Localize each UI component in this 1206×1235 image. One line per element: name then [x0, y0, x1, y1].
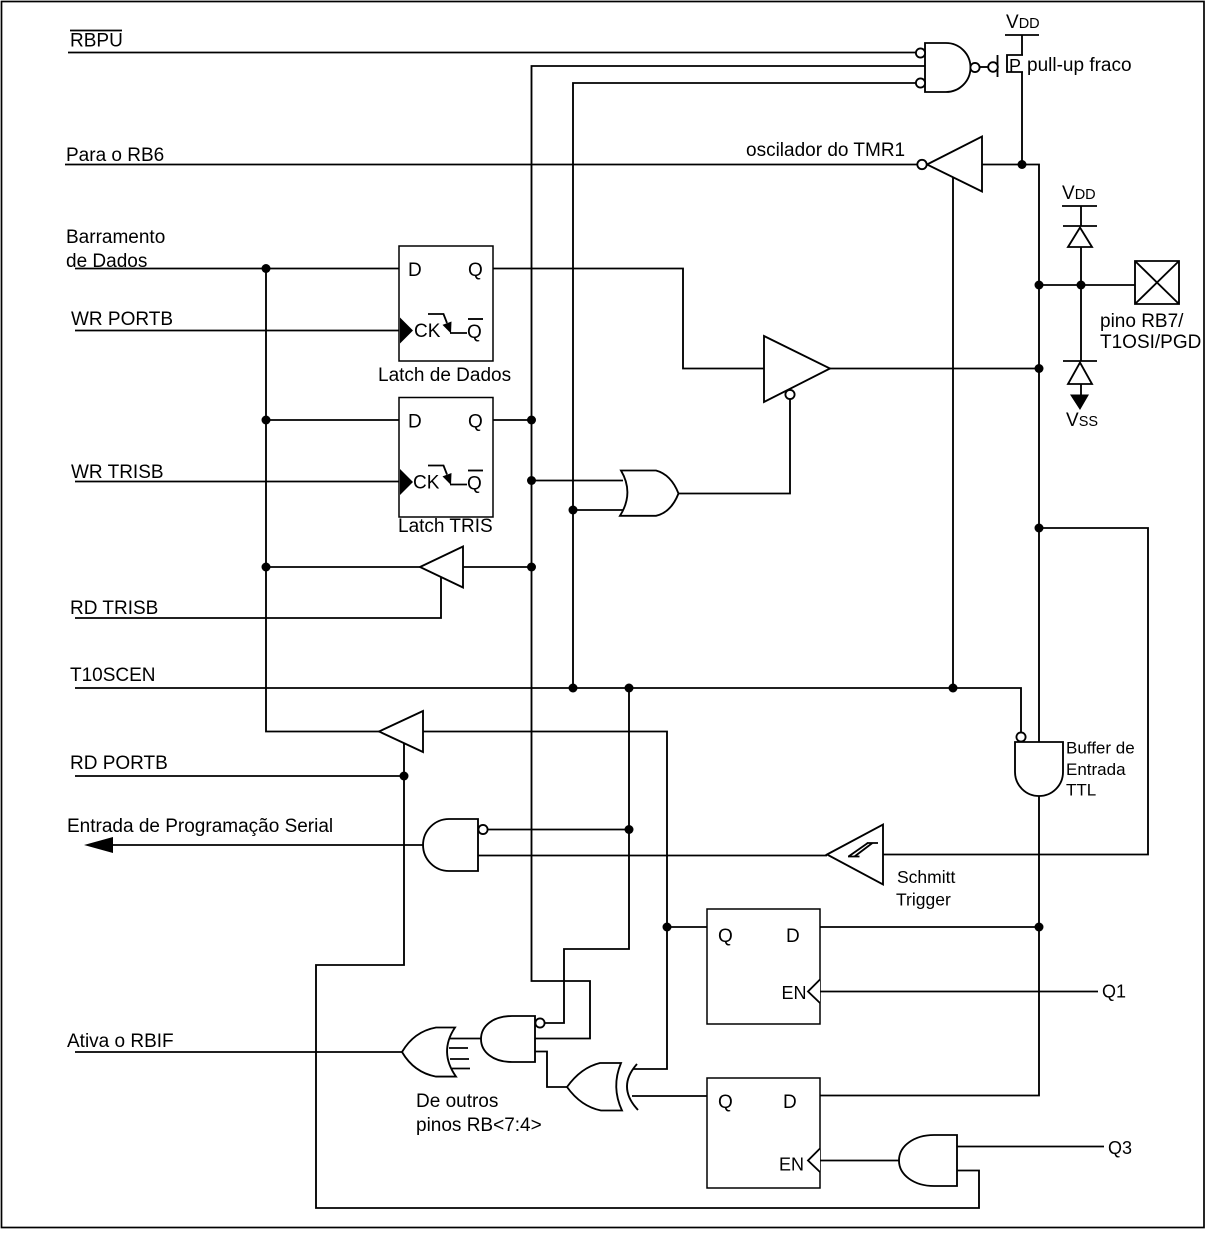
- svg-text:Latch TRIS: Latch TRIS: [398, 516, 493, 537]
- diode D2 clamp to VSS: [1063, 361, 1097, 384]
- wire T10SCEN line to TTL buffer input bubble: [75, 688, 1021, 733]
- svg-text:EN: EN: [782, 983, 807, 1003]
- svg-text:Entrada: Entrada: [1066, 760, 1126, 779]
- net RBPU: signal line: [68, 52, 916, 54]
- wire RD TRISB buffer output to data bus: [266, 566, 420, 568]
- svg-text:Q: Q: [467, 322, 482, 343]
- gate U8 buffer RD PORTB: [379, 711, 423, 752]
- wire T1OSCEN branch to OR gate lower input: [573, 509, 624, 511]
- svg-text:oscilador do TMR1: oscilador do TMR1: [746, 140, 905, 161]
- wire RD TRISB enable line: [75, 577, 441, 618]
- wire Entrada NAND inverted input from T10SCEN net: [488, 829, 630, 831]
- gate U7 buffer RD TRISB: [420, 547, 463, 588]
- wire upper clamp diode to pin line junction: [1080, 247, 1082, 285]
- wire TTL buffer output to latch D inputs: [820, 796, 1039, 1096]
- wire Ativa o RBIF output line: [75, 1051, 402, 1053]
- svg-text:CK: CK: [414, 321, 441, 342]
- gate U5 OR (tri-state enable): [620, 471, 679, 516]
- diode D1 clamp to VDD: [1063, 226, 1097, 247]
- svg-text:Q: Q: [468, 260, 483, 281]
- svg-text:VDD: VDD: [1062, 183, 1096, 204]
- gate U2 inverter (oscilador do TMR1): [917, 137, 982, 192]
- wire P-MOSFET source to VDD rail: [1021, 35, 1023, 55]
- wire RD TRISB buffer input from TRIS net: [463, 566, 532, 568]
- svg-text:RBPU: RBPU: [70, 31, 123, 52]
- power VDD rail 2 (clamp): [1062, 205, 1097, 207]
- ground VSS arrow: [1070, 395, 1089, 411]
- pin pad RB7/T1OSI/PGD: [1135, 261, 1179, 304]
- svg-text:D: D: [408, 412, 422, 433]
- gate U17 AND (Q3 and RD PORTB): [899, 1135, 957, 1186]
- net RBPU: overline bar: [70, 30, 122, 32]
- net T1OSCEN vertical x=573: top gate input down to T10SCEN line: [573, 83, 916, 688]
- svg-text:Buffer de: Buffer de: [1066, 739, 1135, 758]
- svg-text:VDD: VDD: [1006, 12, 1040, 33]
- gate U9 NAND (Entrada de Programacao Serial): [423, 819, 488, 871]
- gate U15 XOR (pin change compare): [567, 1063, 638, 1111]
- wire upper latch D output to TTL buffer net: [820, 926, 1039, 928]
- svg-text:T10SCEN: T10SCEN: [70, 665, 156, 686]
- wire upper latch Q output to latch-read net: [667, 926, 707, 928]
- wire Q3 AND gate upper input from Q3: [957, 1146, 1104, 1148]
- gate U1 3-input NOR (weak pull-up control): [916, 43, 980, 92]
- svg-text:D: D: [786, 926, 800, 947]
- wire RD PORTB buffer input / latch Q net to XOR upper input: [423, 732, 667, 1070]
- svg-text:CK: CK: [413, 473, 440, 494]
- svg-text:pino RB7/: pino RB7/: [1100, 311, 1184, 332]
- wire lower latch EN from Q3 AND gate: [820, 1160, 899, 1162]
- svg-text:Q: Q: [467, 474, 482, 495]
- svg-text:Barramento: Barramento: [66, 227, 165, 248]
- svg-text:Q: Q: [718, 926, 733, 947]
- wire Schmitt trigger output to Entrada NAND input: [478, 855, 827, 857]
- svg-text:RD PORTB: RD PORTB: [70, 753, 168, 774]
- wire NOR output to MOSFET gate bubble: [980, 66, 989, 68]
- svg-text:de Dados: de Dados: [66, 251, 147, 272]
- svg-text:Q: Q: [468, 412, 483, 433]
- svg-text:Q: Q: [718, 1092, 733, 1113]
- wire Schmitt trigger input from pin net: [883, 528, 1148, 855]
- svg-text:P: P: [1009, 56, 1021, 76]
- svg-text:Entrada de Programação Serial: Entrada de Programação Serial: [67, 816, 333, 837]
- wire oscillator enable vertical from inverter to T10SCEN: [952, 177, 954, 688]
- wire pin line junction to lower clamp diode: [1080, 285, 1082, 361]
- wire lower latch Q to XOR lower input: [632, 1095, 707, 1097]
- latch U12 upper input latch (Q D EN): [707, 909, 820, 1024]
- latch U3 Latch de Dados box: [399, 246, 493, 361]
- wire pin net to clamp diodes and pad: [1039, 284, 1135, 286]
- svg-text:pinos RB<7:4>: pinos RB<7:4>: [416, 1115, 542, 1136]
- arrow Entrada de Programacao Serial (output arrow): [84, 837, 113, 853]
- svg-text:Latch de Dados: Latch de Dados: [378, 365, 511, 386]
- wire Entrada de Programacao Serial output line: [110, 844, 423, 846]
- svg-text:WR TRISB: WR TRISB: [71, 462, 164, 483]
- wire RD PORTB enable vertical from buffer through junction: [316, 743, 979, 1208]
- wire VDD2 stem to upper clamp diode: [1080, 206, 1082, 226]
- svg-text:TTL: TTL: [1066, 781, 1096, 800]
- wire Para o RB6 to oscillator inverter input: [65, 164, 917, 166]
- wire data-bus branch to Latch TRIS D: [266, 419, 399, 421]
- svg-text:Schmitt: Schmitt: [897, 867, 955, 887]
- latch U4 Latch TRIS box: [399, 398, 493, 518]
- gate U14 NAND (RBIF compare): [481, 1016, 545, 1062]
- power VDD rail (pull-up): [1005, 34, 1039, 36]
- wire TRIS net branch to OR gate upper input: [532, 480, 624, 482]
- node junction dots: [262, 160, 1086, 932]
- wire Barramento de Dados to Latch de Dados D: [75, 268, 399, 270]
- svg-text:WR PORTB: WR PORTB: [71, 309, 173, 330]
- gate U6 tri-state output driver: [764, 336, 830, 402]
- wire P-MOSFET drain to pin net junction: [1021, 72, 1023, 165]
- wire RD PORTB line: [75, 775, 404, 777]
- wire tri-state driver output to pin net: [830, 368, 1039, 370]
- wire RBIF NAND output into RBIF OR input: [450, 1038, 481, 1040]
- svg-text:D: D: [408, 260, 422, 281]
- gate U16 OR (Ativa o RBIF): [402, 1028, 470, 1077]
- net pin RB7 vertical from weak pull-up junction to TTL buffer: [982, 165, 1039, 743]
- gate U11 TTL input buffer (Buffer de Entrada TTL): [1015, 732, 1063, 796]
- net T10SCEN branch x=629 down to RBIF NAND inverted input: [545, 688, 630, 1023]
- wire upper latch EN line from Q1: [820, 991, 1098, 993]
- svg-text:Trigger: Trigger: [896, 890, 951, 910]
- wire data-bus vertical x=266 down to RD PORTB buffer output: [266, 269, 379, 732]
- wire XOR output to RBIF NAND input: [535, 1052, 567, 1088]
- svg-text:Para o RB6: Para o RB6: [66, 145, 164, 166]
- svg-text:EN: EN: [779, 1155, 804, 1175]
- wire OR gate output to tri-state enable bubble: [679, 399, 790, 494]
- gate U10 Schmitt Trigger buffer: [827, 825, 883, 885]
- transistor Q1 P-MOSFET weak pull-up: [988, 55, 1023, 77]
- svg-text:Q1: Q1: [1102, 982, 1126, 1002]
- svg-text:De outros: De outros: [416, 1091, 498, 1112]
- latch U13 lower input latch (Q D EN): [707, 1078, 820, 1188]
- svg-text:D: D: [783, 1092, 797, 1113]
- svg-text:Ativa o RBIF: Ativa o RBIF: [67, 1031, 174, 1052]
- svg-text:pull-up fraco: pull-up fraco: [1027, 55, 1132, 76]
- wire WR TRISB to Latch TRIS CK: [75, 481, 399, 483]
- svg-text:RD TRISB: RD TRISB: [70, 598, 158, 619]
- svg-text:Q3: Q3: [1108, 1138, 1132, 1158]
- svg-text:VSS: VSS: [1066, 410, 1098, 431]
- wire Latch de Dados Q to tri-state driver input: [493, 269, 764, 369]
- net TRIS vertical x=531.5: top gate input, down to NAND input jog: [532, 66, 926, 1039]
- wire lower clamp diode to VSS arrow: [1080, 384, 1082, 395]
- svg-text:T1OSI/PGD: T1OSI/PGD: [1100, 332, 1201, 353]
- wire WR PORTB to Latch de Dados CK: [75, 330, 399, 332]
- wire Latch TRIS Q to TRIS net: [493, 419, 532, 421]
